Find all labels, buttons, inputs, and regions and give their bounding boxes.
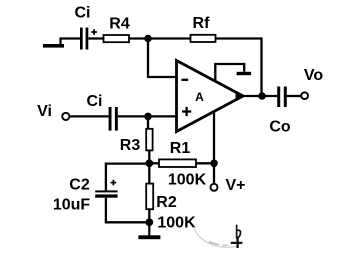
capacitor Ci (top, polarized) (80, 28, 97, 50)
svg-text:Ci: Ci (87, 93, 103, 110)
terminal Vo (301, 92, 308, 99)
svg-text:C2: C2 (69, 177, 90, 194)
capacitor C2 (95, 190, 117, 197)
wire R3 to mid node (148, 150, 150, 163)
wire mid node to R2 (148, 163, 150, 183)
node output junction (258, 92, 266, 100)
svg-text:A: A (195, 90, 204, 104)
svg-text:Rf: Rf (193, 15, 211, 32)
ground (bottom) (138, 222, 160, 239)
resistor R1 (159, 159, 196, 167)
svg-text:R1: R1 (170, 140, 191, 157)
svg-text:Ci: Ci (75, 5, 91, 22)
svg-text:10uF: 10uF (53, 197, 91, 214)
node ground junction (145, 218, 153, 226)
terminal Vi (62, 113, 69, 120)
wire mid node to R1 (149, 162, 159, 164)
wire op-amp output (243, 95, 277, 97)
svg-text:100K: 100K (168, 172, 207, 189)
node V+ junction (210, 160, 218, 168)
wire ground to Ci (60, 37, 81, 39)
svg-text:R4: R4 (109, 16, 130, 33)
wire junction to R3 (147, 116, 149, 129)
ground (op-amp top) (215, 64, 251, 81)
op-amp apex tip (236, 92, 244, 101)
watermark scribble (194, 225, 243, 248)
wire Ci to noninverting input (118, 115, 177, 117)
svg-text:Co: Co (269, 119, 291, 136)
op-amp A (177, 61, 244, 132)
resistor R4 (104, 35, 130, 42)
svg-text:R2: R2 (156, 194, 177, 211)
terminal V+ (211, 184, 218, 191)
svg-text:Vi: Vi (37, 103, 52, 120)
wire Rf to output corner (216, 39, 262, 97)
node junction R4/Rf/inverting (144, 35, 152, 43)
svg-text:100K: 100K (157, 215, 196, 232)
svg-text:R3: R3 (120, 137, 141, 154)
op-amp plus sign (182, 107, 191, 116)
svg-text:V+: V+ (225, 177, 245, 194)
ground (top-left) (43, 39, 64, 48)
wire Co to Vo (287, 95, 301, 97)
resistor R3 (146, 129, 152, 151)
wire R4 to Rf (129, 37, 191, 39)
node mid junction (145, 159, 153, 167)
op-amp minus sign (182, 79, 189, 81)
node noninverting junction (144, 113, 152, 121)
resistor Rf (191, 35, 216, 42)
wire R1 to V+ node (196, 162, 214, 164)
wire Ci to R4 (88, 37, 103, 39)
capacitor Co (277, 87, 287, 108)
wire Vi to Ci (70, 115, 109, 117)
capacitor Ci (input) (109, 107, 118, 131)
resistor R2 (146, 184, 153, 210)
svg-text:Vo: Vo (304, 67, 323, 84)
wire C2 bottom to ground node (106, 198, 149, 223)
wire op-amp supply to V+ node (213, 111, 215, 163)
wire mid node to C2 top (106, 164, 149, 191)
wire V+ node to terminal (213, 163, 215, 183)
capacitor C2 plus sign (111, 180, 117, 186)
wire R2 to ground node (148, 209, 150, 222)
wire inverting input (148, 39, 177, 78)
